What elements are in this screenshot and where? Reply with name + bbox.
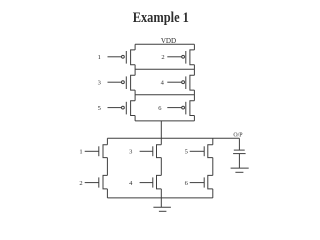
wire left bus: rail to M1 source — [134, 44, 136, 50]
wire col2 bus: N3 to N4 — [160, 158, 162, 176]
svg-text:4: 4 — [161, 80, 165, 87]
capacitor CL top plate — [234, 149, 245, 151]
transistor 3 (NMOS, col2 top) — [140, 145, 162, 158]
capacitor CL bottom plate — [233, 153, 246, 155]
transistor 5 (NMOS, col3 top) — [190, 145, 213, 158]
svg-text:3: 3 — [98, 80, 101, 87]
svg-text:6: 6 — [158, 105, 162, 112]
svg-text:1: 1 — [79, 149, 82, 156]
svg-text:3: 3 — [129, 149, 132, 156]
wire left bus: M3 drain to M5 source — [134, 90, 136, 101]
wire right bus: M6 drain to pull-up output rail — [193, 116, 195, 121]
transistor 2 (PMOS, upper right) — [167, 50, 194, 65]
wire left bus: M5 drain to pull-up output rail — [134, 116, 136, 121]
wire O/P node down to load capacitor — [238, 138, 240, 150]
wire right bus: M4 drain to M6 source — [193, 90, 195, 101]
wire col1 bus: rail to N1 drain — [106, 138, 108, 144]
wire right bus: rail to M2 source — [193, 44, 195, 50]
wire left bus: M1 drain to M3 source — [134, 65, 136, 76]
wire col1 bus: N1 to N2 — [106, 158, 108, 176]
svg-text:5: 5 — [98, 105, 101, 112]
svg-text:Example 1: Example 1 — [133, 10, 189, 26]
svg-text:2: 2 — [79, 180, 82, 187]
transistor 1 (PMOS, upper left) — [108, 50, 136, 65]
svg-text:5: 5 — [185, 149, 188, 156]
transistor 5 (PMOS, lower left of pull-up) — [108, 101, 136, 116]
transistor 6 (NMOS, col3 bottom) — [190, 175, 213, 189]
wire pull-down bottom rail — [107, 197, 212, 199]
wire output node down to pull-down network — [160, 121, 162, 138]
wire capacitor to ground — [238, 154, 240, 169]
svg-text:6: 6 — [185, 180, 189, 187]
svg-text:1: 1 — [98, 54, 101, 61]
transistor 4 (NMOS, col2 bottom) — [140, 175, 162, 189]
transistor 4 (PMOS, mid right) — [167, 75, 194, 90]
wire col1 bus: N2 to ground rail — [106, 189, 108, 198]
transistor 3 (PMOS, mid left) — [108, 75, 136, 90]
ground (main) — [153, 198, 171, 211]
wire col2 bus: N4 to ground rail — [160, 189, 162, 198]
wire pull-down top rail to O/P — [107, 137, 239, 139]
svg-text:2: 2 — [161, 54, 164, 61]
wire col3 bus: N6 to ground rail — [212, 189, 214, 198]
transistor 2 (NMOS, col1 bottom) — [85, 175, 108, 189]
wire inter-row rail node B — [135, 94, 194, 96]
wire col3 bus: rail to N5 drain — [212, 138, 214, 144]
wire inter-row rail node A — [135, 68, 194, 70]
svg-text:O/P: O/P — [233, 132, 243, 138]
wire col3 bus: N5 to N6 — [212, 158, 214, 176]
transistor 6 (PMOS, lower right of pull-up) — [167, 101, 194, 116]
ground (load capacitor) — [231, 168, 249, 172]
wire right bus: M2 drain to M4 source — [193, 65, 195, 76]
svg-text:VDD: VDD — [161, 37, 176, 45]
wire col2 bus: rail to N3 drain — [160, 138, 162, 144]
wire VDD rail — [135, 43, 194, 45]
svg-text:4: 4 — [129, 180, 133, 187]
transistor 1 (NMOS, col1 top) — [85, 145, 108, 158]
wire pull-up bottom rail — [135, 120, 194, 122]
